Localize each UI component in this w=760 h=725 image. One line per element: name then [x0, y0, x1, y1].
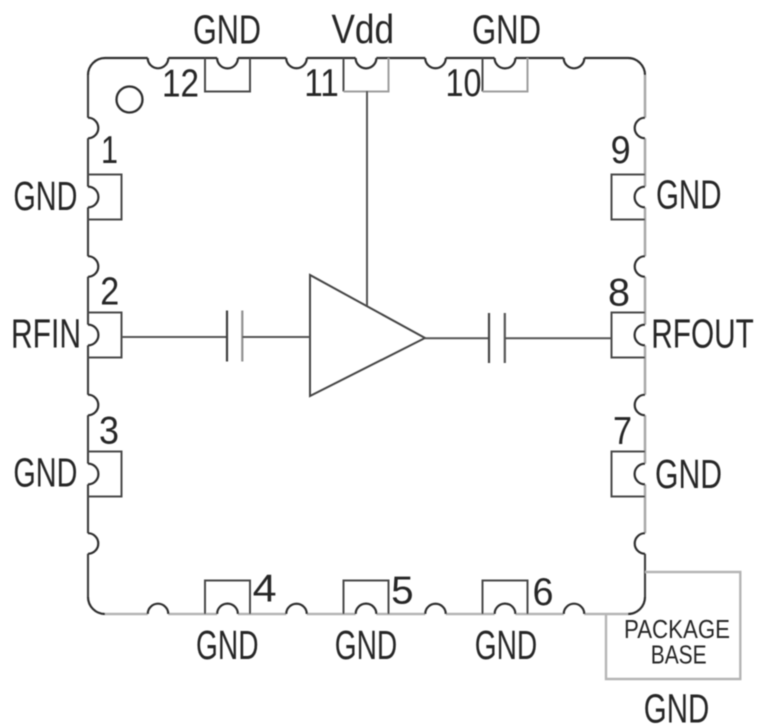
package outline: right edge castellation notches: [635, 118, 645, 554]
wire: Vdd from pin 11 to amplifier: [366, 91, 368, 306]
svg-text:Vdd: Vdd: [332, 6, 395, 52]
capacitor C1 (input DC block) left plate: [226, 311, 228, 362]
svg-text:GND: GND: [335, 622, 398, 668]
svg-text:6: 6: [533, 571, 554, 614]
op-amp U1 amplifier triangle: [310, 275, 425, 396]
pin 10 pad: [483, 58, 528, 92]
svg-text:5: 5: [391, 570, 414, 613]
pin 11 pad: [344, 58, 389, 92]
pin 7 pad: [612, 452, 646, 497]
package outline: right edge straight segments: [644, 75, 647, 533]
pin 4 pad: [205, 581, 250, 615]
pin 5 pad: [344, 581, 389, 615]
svg-text:12: 12: [162, 63, 199, 106]
package outline: rounded corners: [88, 58, 645, 614]
package outline: left edge straight segments: [87, 75, 89, 597]
pin 1 indicator circle: [117, 87, 143, 113]
svg-text:GND: GND: [196, 622, 259, 668]
capacitor C2 (output DC block) right plate: [504, 313, 506, 363]
pin 8 pad: [612, 313, 646, 358]
svg-text:4: 4: [253, 568, 277, 611]
package outline: top edge castellation notches: [148, 58, 585, 68]
svg-text:7: 7: [613, 410, 632, 453]
svg-text:GND: GND: [193, 7, 261, 53]
svg-text:RFOUT: RFOUT: [651, 310, 754, 356]
svg-text:10: 10: [446, 62, 482, 105]
svg-text:3: 3: [99, 410, 119, 453]
package outline: right edge lower straight segment: [644, 554, 646, 597]
svg-text:GND: GND: [13, 450, 77, 496]
svg-text:9: 9: [611, 129, 631, 172]
svg-text:8: 8: [608, 272, 630, 315]
svg-text:GND: GND: [475, 622, 538, 668]
pin 6 pad: [483, 581, 528, 615]
svg-text:2: 2: [100, 271, 119, 314]
pin 9 pad: [612, 175, 646, 220]
capacitor C2 (output DC block) left plate: [488, 313, 490, 363]
svg-text:BASE: BASE: [651, 640, 707, 670]
svg-text:RFIN: RFIN: [11, 311, 81, 357]
package base box: [606, 572, 740, 679]
svg-text:1: 1: [101, 129, 118, 172]
package outline: left edge castellation notches: [88, 118, 98, 554]
capacitor C1 (input DC block) right plate: [241, 311, 243, 362]
svg-text:GND: GND: [13, 173, 77, 219]
svg-text:GND: GND: [656, 172, 722, 218]
wire: capacitor C2 to RFOUT pin 8: [505, 337, 611, 339]
wire: RFIN pin 2 to capacitor C1: [122, 336, 227, 338]
package outline: bottom edge straight segments: [105, 613, 628, 616]
wire: amplifier output to capacitor C2: [425, 337, 489, 339]
pin 1 pad: [88, 175, 122, 220]
svg-text:GND: GND: [644, 686, 710, 725]
pin 3 pad: [88, 452, 122, 497]
pin 12 pad: [205, 58, 250, 92]
wire: capacitor C1 to amplifier input: [242, 336, 310, 338]
package outline: bottom edge castellation notches: [148, 604, 585, 614]
svg-text:GND: GND: [472, 7, 541, 53]
pin 2 pad: [88, 313, 122, 358]
svg-text:GND: GND: [655, 451, 722, 497]
svg-text:11: 11: [304, 62, 339, 105]
package outline: top edge straight segments: [105, 57, 628, 59]
